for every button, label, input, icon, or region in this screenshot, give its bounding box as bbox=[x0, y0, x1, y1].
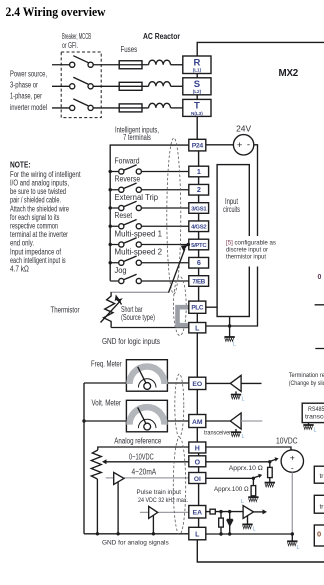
svg-text:L: L bbox=[297, 545, 300, 551]
svg-text:L: L bbox=[195, 325, 200, 332]
svg-text:L: L bbox=[233, 342, 236, 348]
svg-text:EO: EO bbox=[192, 381, 202, 388]
svg-text:P24: P24 bbox=[192, 142, 204, 149]
svg-text:discrete input or: discrete input or bbox=[226, 246, 269, 253]
svg-text:NOTE:: NOTE: bbox=[10, 161, 31, 170]
svg-text:(Source type): (Source type) bbox=[121, 313, 155, 322]
svg-text:1: 1 bbox=[197, 167, 201, 176]
svg-text:(L2): (L2) bbox=[193, 89, 202, 94]
svg-text:(L1): (L1) bbox=[193, 68, 202, 73]
svg-text:4/GS2: 4/GS2 bbox=[191, 225, 207, 231]
svg-text:GND for analog signals: GND for analog signals bbox=[102, 539, 169, 546]
svg-text:tr: tr bbox=[320, 504, 324, 511]
svg-text:thermistor input: thermistor input bbox=[226, 253, 266, 260]
svg-text:7 terminals: 7 terminals bbox=[123, 133, 151, 142]
svg-text:-: - bbox=[291, 462, 294, 472]
svg-text:-: - bbox=[247, 140, 250, 151]
svg-text:24 VDC 32 kHz max.: 24 VDC 32 kHz max. bbox=[138, 497, 188, 504]
svg-text:Fuses: Fuses bbox=[121, 45, 138, 54]
svg-text:5/PTC: 5/PTC bbox=[191, 243, 207, 249]
svg-text:4~20mA: 4~20mA bbox=[132, 468, 157, 477]
svg-text:2.4 Wiring overview: 2.4 Wiring overview bbox=[6, 5, 106, 19]
svg-text:6: 6 bbox=[197, 258, 201, 267]
svg-text:0~10VDC: 0~10VDC bbox=[129, 453, 154, 462]
svg-text:circuits: circuits bbox=[223, 205, 240, 214]
svg-text:or GFI.: or GFI. bbox=[62, 41, 78, 50]
svg-text:External Trip: External Trip bbox=[115, 193, 159, 202]
svg-text:Forward: Forward bbox=[115, 156, 140, 165]
svg-text:Termination resistor: Termination resistor bbox=[289, 372, 324, 379]
svg-text:Reset: Reset bbox=[115, 211, 133, 220]
svg-text:7/EB: 7/EB bbox=[192, 278, 205, 285]
svg-text:10VDC: 10VDC bbox=[276, 437, 298, 446]
svg-text:PLC: PLC bbox=[191, 305, 204, 312]
svg-text:inverter model: inverter model bbox=[10, 103, 47, 112]
svg-text:tr: tr bbox=[320, 473, 324, 480]
svg-text:3/GS1: 3/GS1 bbox=[191, 206, 207, 212]
svg-text:+: + bbox=[290, 452, 295, 462]
svg-text:24V: 24V bbox=[236, 125, 252, 134]
svg-text:EA: EA bbox=[193, 510, 203, 517]
svg-text:+: + bbox=[237, 140, 243, 151]
svg-text:O: O bbox=[195, 459, 201, 466]
svg-text:Multi-speed 1: Multi-speed 1 bbox=[115, 229, 163, 238]
svg-text:MX2: MX2 bbox=[279, 68, 299, 79]
svg-text:transceiver: transceiver bbox=[305, 414, 324, 421]
svg-text:[5] configurable as: [5] configurable as bbox=[226, 239, 277, 246]
svg-text:Multi-speed 2: Multi-speed 2 bbox=[115, 248, 163, 257]
svg-text:Reverse: Reverse bbox=[115, 175, 141, 184]
svg-text:L: L bbox=[195, 532, 200, 539]
svg-text:L: L bbox=[242, 397, 245, 403]
svg-text:(Change by slide switch): (Change by slide switch) bbox=[289, 380, 324, 387]
svg-text:2: 2 bbox=[197, 185, 201, 194]
svg-text:Apprx.10 Ω: Apprx.10 Ω bbox=[229, 465, 263, 472]
svg-text:H: H bbox=[195, 446, 200, 453]
svg-text:RS485: RS485 bbox=[308, 406, 324, 413]
svg-text:3-phase or: 3-phase or bbox=[10, 81, 38, 90]
svg-text:transceiver: transceiver bbox=[204, 429, 232, 436]
svg-text:AC Reactor: AC Reactor bbox=[143, 32, 180, 41]
svg-text:L: L bbox=[241, 499, 244, 505]
svg-text:Pulse train input: Pulse train input bbox=[137, 489, 182, 496]
svg-text:Breaker, MCCB: Breaker, MCCB bbox=[62, 32, 91, 41]
svg-text:Thermistor: Thermistor bbox=[51, 306, 80, 315]
svg-text:1-phase, per: 1-phase, per bbox=[10, 92, 42, 101]
svg-text:L: L bbox=[253, 527, 256, 533]
svg-text:GND for logic inputs: GND for logic inputs bbox=[102, 337, 160, 346]
svg-text:4.7 kΩ: 4.7 kΩ bbox=[10, 265, 29, 274]
svg-text:Power source,: Power source, bbox=[10, 70, 47, 79]
svg-text:0: 0 bbox=[317, 530, 321, 539]
svg-text:N(L3): N(L3) bbox=[191, 111, 203, 116]
svg-text:AM: AM bbox=[192, 419, 203, 426]
svg-text:Analog reference: Analog reference bbox=[114, 437, 161, 446]
svg-text:OI: OI bbox=[194, 476, 201, 483]
svg-text:Jog: Jog bbox=[115, 266, 127, 275]
svg-text:Volt. Meter: Volt. Meter bbox=[92, 399, 122, 408]
svg-text:Apprx.100 Ω: Apprx.100 Ω bbox=[214, 486, 249, 493]
svg-text:0: 0 bbox=[318, 274, 322, 281]
svg-text:L: L bbox=[314, 428, 317, 434]
svg-text:Freq. Meter: Freq. Meter bbox=[91, 359, 122, 368]
svg-text:L: L bbox=[242, 434, 245, 440]
